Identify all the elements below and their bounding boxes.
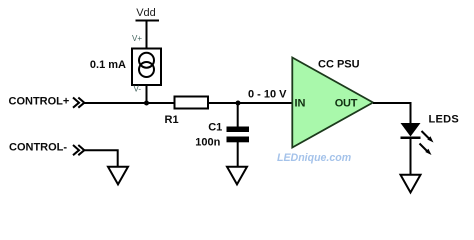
wire bbox=[84, 102, 175, 104]
capacitor C1 bbox=[227, 127, 250, 143]
wire bbox=[146, 85, 148, 104]
svg-text:0 - 10 V: 0 - 10 V bbox=[248, 89, 287, 101]
ground bbox=[401, 175, 421, 193]
wire bbox=[373, 103, 411, 124]
svg-text:V-: V- bbox=[134, 85, 142, 94]
svg-text:LEDnique.com: LEDnique.com bbox=[277, 152, 351, 164]
svg-text:CC PSU: CC PSU bbox=[318, 59, 360, 71]
wire bbox=[237, 142, 239, 167]
port CONTROL+ bbox=[9, 96, 85, 108]
wire bbox=[410, 139, 412, 175]
op-amp U1 CC PSU bbox=[292, 58, 373, 148]
power symbol Vdd bbox=[136, 7, 160, 21]
ground bbox=[108, 167, 128, 185]
LED arrow bbox=[420, 144, 432, 156]
svg-text:IN: IN bbox=[295, 98, 306, 110]
LED D1 bbox=[401, 123, 421, 139]
svg-text:CONTROL-: CONTROL- bbox=[9, 142, 67, 154]
svg-text:CONTROL+: CONTROL+ bbox=[9, 96, 70, 108]
svg-text:100n: 100n bbox=[195, 137, 220, 149]
svg-text:C1: C1 bbox=[208, 122, 222, 134]
svg-text:LEDS: LEDS bbox=[429, 113, 460, 125]
svg-text:R1: R1 bbox=[165, 114, 179, 126]
port CONTROL- bbox=[9, 142, 84, 156]
wire bbox=[84, 150, 118, 167]
svg-text:V+: V+ bbox=[132, 34, 142, 43]
junction bbox=[144, 101, 149, 106]
resistor R1 bbox=[175, 97, 209, 109]
LED arrow bbox=[422, 131, 434, 143]
svg-text:0.1 mA: 0.1 mA bbox=[90, 59, 126, 71]
svg-text:OUT: OUT bbox=[335, 98, 358, 110]
wire bbox=[237, 103, 239, 127]
current source 0.1 mA bbox=[132, 49, 161, 86]
ground bbox=[227, 167, 247, 185]
wire bbox=[146, 21, 148, 50]
wire bbox=[208, 102, 292, 104]
junction bbox=[236, 101, 241, 106]
svg-text:Vdd: Vdd bbox=[136, 7, 156, 19]
